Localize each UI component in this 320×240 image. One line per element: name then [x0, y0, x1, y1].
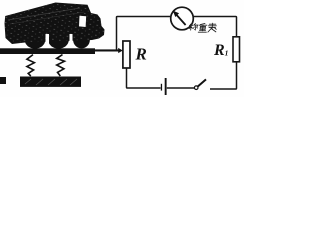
wire top-right: meter to corner and down to R1: [193, 17, 236, 37]
base block: [20, 77, 81, 87]
rheostat R box: [123, 41, 130, 68]
switch: [194, 79, 206, 89]
truck middle wheel: [48, 31, 69, 48]
label 称重表 (weighing meter), drawn as strokes: [189, 23, 217, 32]
wall block at left edge: [0, 77, 6, 84]
wire top-left: from corner to meter: [117, 17, 171, 51]
wheel gap 2: [70, 34, 73, 46]
wire switch to battery: [167, 87, 194, 89]
spring right: [57, 55, 65, 76]
scan speckle overlay: [5, 3, 105, 45]
battery: [161, 78, 167, 95]
cab notch: [79, 16, 86, 27]
bed texture streaks: [8, 8, 80, 20]
wire right-bottom: R1 down, along bottom to switch: [210, 62, 237, 89]
resistor R1 box: [233, 37, 240, 62]
wheel gap 1: [46, 34, 50, 47]
wire battery to bottom-left corner, up to rheostat: [127, 68, 161, 88]
truck rear wheel: [25, 31, 46, 48]
platform (scale pan): [0, 48, 95, 54]
meter (weighing meter) circle: [171, 7, 194, 30]
truck (dump truck silhouette): [5, 3, 105, 49]
truck front wheel: [73, 31, 90, 48]
svg-text:R: R: [135, 45, 147, 64]
meter needle: [173, 11, 186, 25]
spring left: [27, 55, 35, 76]
wiper arm with arrow: [94, 48, 123, 53]
